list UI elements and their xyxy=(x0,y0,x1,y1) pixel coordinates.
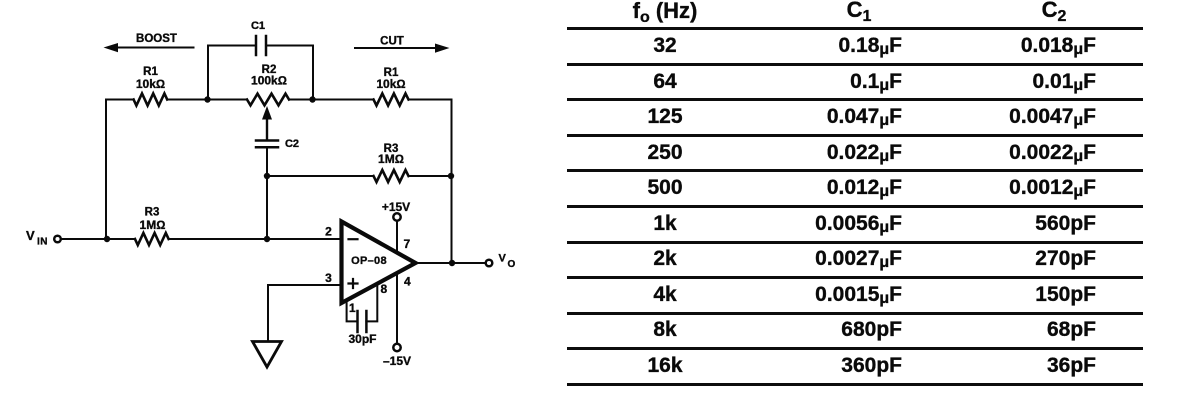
svg-text:7: 7 xyxy=(404,237,411,251)
svg-text:OP–08: OP–08 xyxy=(351,255,387,267)
svg-text:C2: C2 xyxy=(285,138,299,150)
svg-text:V: V xyxy=(26,228,35,243)
svg-text:CUT: CUT xyxy=(380,36,404,48)
svg-text:1MΩ: 1MΩ xyxy=(140,218,166,232)
svg-text:1MΩ: 1MΩ xyxy=(378,152,404,166)
svg-text:V: V xyxy=(499,253,507,265)
svg-text:30pF: 30pF xyxy=(348,332,376,346)
svg-text:C1: C1 xyxy=(251,20,265,32)
svg-text:2: 2 xyxy=(325,225,332,239)
svg-text:8: 8 xyxy=(381,282,388,296)
svg-text:10kΩ: 10kΩ xyxy=(136,77,165,91)
svg-text:BOOST: BOOST xyxy=(136,33,177,45)
svg-text:4: 4 xyxy=(404,275,411,289)
svg-text:IN: IN xyxy=(37,237,48,248)
svg-text:10kΩ: 10kΩ xyxy=(376,77,405,91)
svg-text:+15V: +15V xyxy=(382,200,410,214)
svg-text:O: O xyxy=(508,259,516,270)
svg-text:R3: R3 xyxy=(145,207,160,219)
svg-text:100kΩ: 100kΩ xyxy=(251,74,287,88)
svg-text:3: 3 xyxy=(325,271,332,285)
svg-text:–15V: –15V xyxy=(383,354,411,368)
svg-text:1: 1 xyxy=(349,301,356,315)
